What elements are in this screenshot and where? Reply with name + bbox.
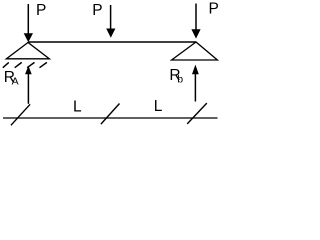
label L (left span) (73, 99, 82, 116)
force arrow P2 (centre load) (106, 5, 115, 38)
pin support A (left triangle) (6, 43, 49, 59)
dimension line (3, 117, 218, 119)
svg-text:b: b (177, 73, 183, 85)
label P3 (209, 1, 219, 18)
beam (28, 41, 196, 43)
label P2 (92, 2, 102, 19)
label P1 (36, 2, 46, 19)
reaction arrow Rb (192, 65, 199, 102)
svg-text:P: P (92, 2, 102, 19)
reaction arrow RA (25, 66, 32, 104)
label Rb (169, 67, 183, 85)
svg-text:P: P (209, 1, 219, 18)
svg-text:L: L (73, 99, 82, 116)
svg-text:L: L (154, 98, 163, 115)
svg-text:P: P (36, 2, 46, 19)
support B (right triangle) (172, 42, 218, 60)
svg-text:A: A (12, 75, 19, 87)
dimension tick left (11, 104, 30, 125)
label L (right span) (154, 98, 163, 115)
dimension tick right (187, 103, 207, 124)
label RA (4, 69, 19, 87)
ground hatching under support A (3, 62, 47, 67)
force arrow P1 (left load) (24, 4, 33, 42)
dimension tick centre (101, 104, 120, 125)
force arrow P3 (right load) (191, 4, 200, 39)
